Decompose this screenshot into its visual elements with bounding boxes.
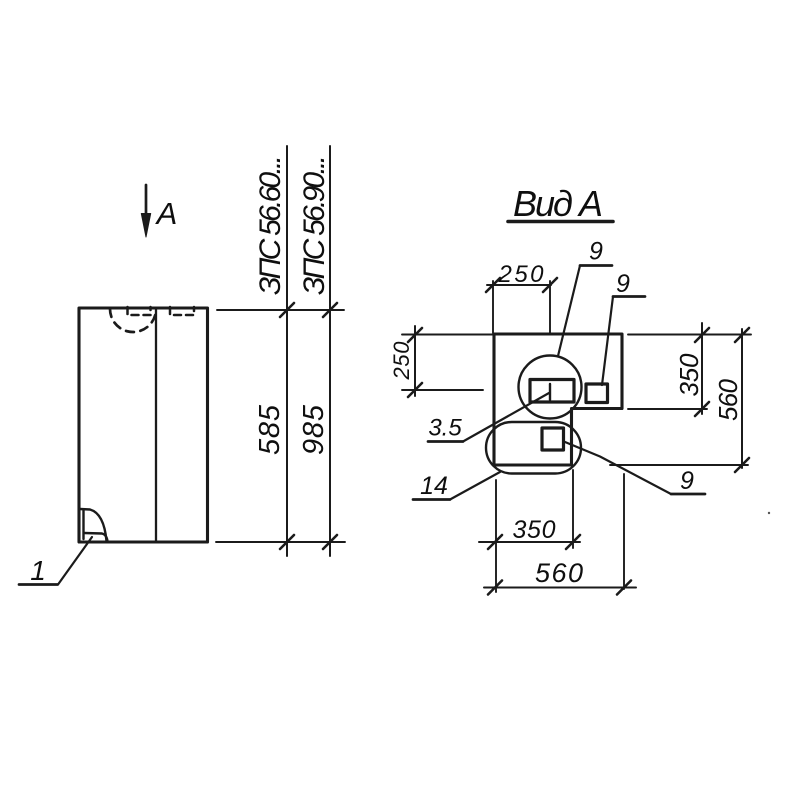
svg-text:3.5: 3.5: [428, 415, 462, 442]
svg-text:9: 9: [589, 238, 603, 266]
loop recess circle: [519, 356, 582, 419]
leader 14: [450, 472, 500, 500]
leader 9 #2: [602, 297, 613, 386]
svg-text:ЗПС 56.90...: ЗПС 56.90...: [298, 155, 331, 295]
recess rectangle: [530, 380, 574, 403]
tick marks left view: [280, 303, 337, 549]
item 1 underline: [19, 583, 58, 586]
leader 9 #1: [558, 266, 580, 357]
dimension line 985: [329, 146, 331, 556]
extension line top: [217, 309, 344, 311]
speck artifact: [768, 512, 770, 514]
view title underline: [508, 220, 613, 224]
stadium boss outline: [486, 422, 581, 474]
section arrow head: [141, 214, 150, 238]
panel joint line: [155, 308, 157, 542]
embedded square upper: [586, 384, 608, 403]
extension line bottom: [216, 541, 345, 543]
panel outline: [79, 308, 208, 542]
embedded square lower: [542, 428, 564, 450]
embedded part (dashed) left: [128, 307, 151, 315]
dimension line 560 bottom: [484, 587, 636, 589]
svg-text:А: А: [155, 196, 178, 231]
svg-text:250: 250: [389, 341, 414, 381]
plate outline (L-shape): [494, 334, 622, 465]
slot mark in recess: [549, 384, 551, 400]
embedded part (dashed) right: [170, 307, 194, 315]
svg-text:9: 9: [680, 467, 694, 495]
tick marks right view: [408, 278, 749, 595]
dimension line 350 right: [701, 323, 703, 414]
extension line right top: [628, 334, 751, 336]
section arrow shaft: [145, 185, 148, 220]
svg-text:14: 14: [420, 472, 448, 500]
dimension line 250 top: [487, 284, 551, 286]
extension lines top 250: [492, 281, 494, 333]
dimension line 585: [286, 146, 288, 556]
svg-text:350: 350: [513, 516, 556, 544]
svg-text:585: 585: [254, 404, 286, 455]
svg-text:985: 985: [298, 404, 330, 455]
extension line right mid: [628, 408, 707, 410]
dimension line 250 left: [414, 326, 416, 396]
corner drain detail inner edge: [82, 510, 84, 540]
svg-text:350: 350: [674, 353, 704, 397]
extension lines bottom: [495, 480, 497, 592]
leader 9 #3: [565, 442, 671, 494]
corner drain detail foot curve: [84, 533, 108, 541]
svg-text:250: 250: [498, 261, 545, 288]
svg-text:560: 560: [535, 558, 583, 588]
hidden lifting loop arc (dashed): [110, 309, 156, 332]
svg-text:ЗПС 56.60...: ЗПС 56.60...: [254, 155, 287, 295]
leader 3.5: [463, 393, 549, 442]
dimension line 350 bottom: [479, 541, 580, 543]
svg-text:Вид А: Вид А: [513, 183, 603, 224]
corner drain detail outer curve: [80, 509, 107, 541]
svg-text:9: 9: [616, 270, 630, 298]
extension lines left 250: [402, 334, 493, 336]
svg-text:560: 560: [713, 378, 743, 421]
dimension line 560 right: [741, 329, 743, 468]
svg-text:1: 1: [30, 555, 46, 586]
leader to item 1: [58, 537, 92, 585]
extension line right bottom: [610, 464, 748, 466]
